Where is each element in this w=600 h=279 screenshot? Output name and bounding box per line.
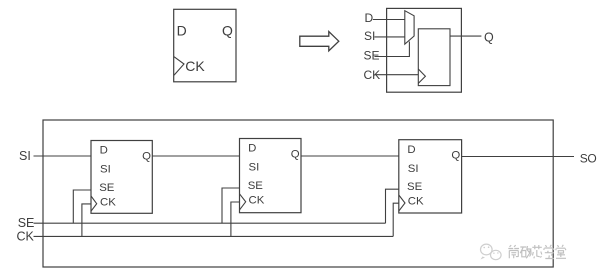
U0 pin label D <box>177 23 187 39</box>
svg-text:CK: CK <box>185 58 205 74</box>
flip-flop FF3 box <box>399 140 462 213</box>
svg-text:D: D <box>248 143 256 155</box>
flip-flop FF2 box <box>240 139 302 213</box>
svg-text:D: D <box>365 11 374 25</box>
svg-text:Q: Q <box>142 150 151 162</box>
FF3 pin label Q <box>451 150 460 162</box>
wire FF2.Q to FF3 <box>301 155 399 157</box>
node SI label <box>19 149 31 163</box>
wire Q out of U1 <box>450 35 481 37</box>
svg-text:SE: SE <box>18 216 35 230</box>
U1 input label SI <box>364 29 375 43</box>
wire CK to inner flop <box>375 74 419 76</box>
node CK label <box>17 230 35 244</box>
FF3 pin label SI <box>408 163 419 175</box>
scan chain outer box <box>43 120 553 267</box>
svg-text:SO: SO <box>580 151 597 165</box>
svg-text:SI: SI <box>19 149 31 163</box>
block arrow (transformation) <box>300 32 339 51</box>
U1 output label Q <box>484 30 494 44</box>
inner flip-flop of U1 <box>418 29 450 86</box>
inner flop clock triangle <box>418 69 425 83</box>
U0 pin label Q <box>222 23 233 39</box>
watermark logo <box>481 244 502 260</box>
U1 input label CK <box>364 68 381 82</box>
wire D to mux <box>373 19 405 21</box>
svg-text:SI: SI <box>408 163 419 175</box>
scan flip-flop U1 outer box (top-right) <box>387 8 462 92</box>
wire CK to FF2 <box>231 202 240 236</box>
wire CK to FF1 <box>82 204 91 237</box>
svg-text:CK: CK <box>100 197 116 209</box>
svg-text:Q: Q <box>484 30 494 44</box>
U1 input label SE <box>364 49 380 63</box>
FF3 pin label D <box>407 144 415 156</box>
FF2 pin label CK <box>249 195 265 207</box>
svg-text:SI: SI <box>364 29 375 43</box>
wire SE to FF2 <box>222 188 240 223</box>
svg-text:D: D <box>177 23 187 39</box>
node SO label <box>580 151 597 165</box>
flip-flop U0 (plain D flip-flop, top-left) <box>174 9 236 82</box>
FF3 clock triangle <box>399 195 405 211</box>
FF3 pin label SE <box>407 181 423 193</box>
U1 input label D <box>365 11 374 25</box>
svg-text:SI: SI <box>100 164 111 176</box>
FF2 pin label SE <box>248 180 264 192</box>
wire SE to FF3 <box>386 189 399 223</box>
U0 clock edge triangle <box>174 57 184 76</box>
watermark text 简矽芯学堂 <box>508 245 566 259</box>
svg-text:D: D <box>100 145 108 157</box>
wire SE to FF1 <box>73 190 91 223</box>
FF1 pin label Q <box>142 150 151 162</box>
FF3 pin label CK <box>408 196 424 208</box>
wire FF1.Q to FF2 <box>152 155 239 157</box>
wire SE bus <box>34 222 386 224</box>
svg-text:SE: SE <box>99 182 115 194</box>
mux M1 <box>405 11 414 45</box>
node SE label <box>18 216 35 230</box>
FF1 pin label SE <box>99 182 115 194</box>
svg-text:CK: CK <box>17 230 35 244</box>
svg-text:SI: SI <box>249 162 260 174</box>
FF1 pin label CK <box>100 197 116 209</box>
FF1 clock triangle <box>91 196 97 211</box>
FF1 pin label SI <box>100 164 111 176</box>
svg-text:Q: Q <box>222 23 233 39</box>
svg-text:SE: SE <box>248 180 264 192</box>
svg-text:CK: CK <box>408 196 424 208</box>
wire SI to mux <box>374 36 404 38</box>
svg-text:CK: CK <box>249 195 265 207</box>
wire CK to FF3 <box>393 203 399 236</box>
FF2 pin label SI <box>249 162 260 174</box>
svg-text:Q: Q <box>291 148 300 160</box>
FF2 clock triangle <box>240 194 246 210</box>
svg-text:Q: Q <box>451 150 460 162</box>
U0 pin label CK <box>185 58 205 74</box>
wire SE to mux select <box>374 42 409 57</box>
wire SI input <box>34 155 92 157</box>
FF1 pin label D <box>100 145 108 157</box>
FF2 pin label D <box>248 143 256 155</box>
FF2 pin label Q <box>291 148 300 160</box>
wire CK bus <box>34 235 394 237</box>
svg-text:SE: SE <box>407 181 423 193</box>
wire FF3.Q to SO <box>462 156 574 158</box>
svg-text:SE: SE <box>364 49 380 63</box>
flip-flop FF1 box <box>91 141 152 214</box>
svg-text:D: D <box>407 144 415 156</box>
